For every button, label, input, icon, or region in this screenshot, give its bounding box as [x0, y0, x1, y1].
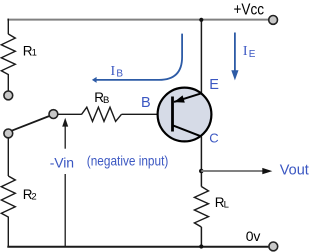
svg-text:+Vcc: +Vcc	[234, 2, 265, 19]
svg-text:(negative input): (negative input)	[87, 153, 169, 169]
svg-text:C: C	[209, 130, 218, 145]
collector line	[173, 125, 202, 136]
svg-text:B: B	[116, 68, 123, 79]
-Vin input line	[64, 126, 66, 149]
resistor R2	[1, 176, 15, 220]
IE current arrow	[234, 33, 236, 72]
emitter wire (rail to transistor)	[200, 20, 202, 94]
0v rail (bottom)	[7, 246, 268, 248]
wire from +Vcc rail to R1	[7, 19, 9, 35]
Vout junction dot	[199, 169, 204, 174]
svg-text:I: I	[111, 64, 116, 79]
svg-text:-Vin: -Vin	[50, 154, 74, 170]
+Vcc terminal	[269, 16, 278, 25]
emitter line with PNP arrow	[174, 93, 202, 102]
+Vcc supply rail (top)	[7, 19, 268, 21]
svg-text:E: E	[249, 49, 256, 60]
-Vin arrowhead	[62, 118, 68, 127]
Vout line	[201, 170, 263, 172]
wire R2 top	[7, 138, 9, 176]
resistor R1	[1, 34, 15, 91]
switch pivot terminal (top of R2)	[4, 129, 13, 138]
0v terminal	[269, 242, 278, 251]
junction at +Vcc rail	[199, 18, 203, 22]
svg-text:B: B	[141, 95, 151, 111]
base node terminal	[49, 110, 58, 119]
junction at 0v rail	[199, 244, 203, 248]
svg-text:E: E	[209, 77, 219, 93]
wire RL to 0v rail	[200, 227, 202, 247]
svg-text:Vout: Vout	[280, 163, 309, 179]
svg-text:0v: 0v	[246, 228, 261, 244]
svg-text:B: B	[103, 95, 109, 106]
wire R2 bottom	[7, 220, 9, 248]
Vout arrowhead	[262, 168, 272, 174]
svg-text:I: I	[243, 44, 248, 59]
wire RB to base	[122, 113, 173, 115]
svg-text:L: L	[224, 200, 229, 211]
resistor RB	[82, 107, 122, 121]
resistor RL	[194, 187, 208, 228]
R1 bottom terminal	[4, 91, 13, 100]
svg-text:1: 1	[32, 48, 37, 59]
switch wire (diagonal to base node)	[12, 116, 51, 131]
wire node to RB	[58, 113, 82, 115]
collector wire to Vout junction	[200, 137, 202, 187]
IB current path curve	[96, 34, 182, 80]
svg-text:2: 2	[31, 192, 36, 203]
transistor Q1 (PNP) body	[158, 88, 212, 142]
base bar	[171, 97, 174, 132]
